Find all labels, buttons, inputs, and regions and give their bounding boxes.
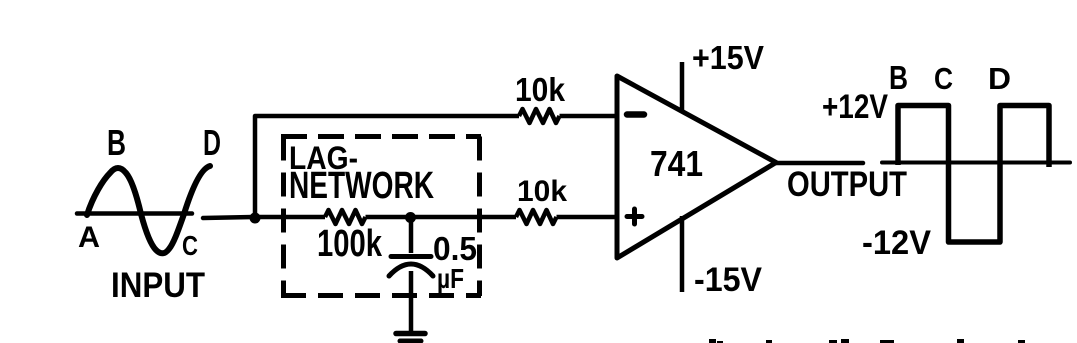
svg-text:C: C bbox=[934, 61, 953, 96]
negative supply wire bbox=[680, 216, 685, 292]
wire capacitor to ground bbox=[409, 271, 414, 333]
svg-text:µF: µF bbox=[437, 263, 464, 294]
svg-text:+12V: +12V bbox=[822, 88, 888, 126]
node junction dot bbox=[250, 213, 261, 224]
ground bbox=[396, 334, 425, 342]
op-amp inverting pin minus sign bbox=[627, 111, 644, 118]
output square waveform bbox=[898, 106, 1049, 243]
svg-text:-15V: -15V bbox=[694, 261, 762, 299]
dashed box right edge bbox=[477, 137, 482, 297]
output wire bbox=[776, 161, 863, 166]
resistor R2 10k (bottom) bbox=[516, 210, 557, 224]
svg-text:741: 741 bbox=[650, 143, 703, 184]
wire R2 to op-amp non-inverting input bbox=[557, 215, 617, 220]
dashed box bottom edge bbox=[281, 293, 481, 298]
output waveform axis bbox=[882, 161, 1070, 165]
svg-text:B: B bbox=[889, 59, 908, 96]
svg-text:10k: 10k bbox=[515, 71, 566, 108]
node capacitor junction dot bbox=[405, 212, 416, 223]
resistor R3 100k bbox=[325, 210, 366, 224]
wire input to node bbox=[203, 217, 253, 218]
svg-text:A: A bbox=[78, 221, 100, 254]
svg-text:INPUT: INPUT bbox=[111, 266, 205, 305]
wire node up branch bbox=[255, 116, 519, 217]
svg-text:10k: 10k bbox=[517, 175, 567, 208]
svg-text:-12V: -12V bbox=[862, 224, 931, 262]
svg-text:C: C bbox=[182, 230, 198, 261]
wire node down to capacitor bbox=[409, 218, 414, 253]
svg-text:+15V: +15V bbox=[692, 39, 764, 76]
cut-off caption text fragments at bottom edge bbox=[709, 339, 1025, 343]
wire R1 to op-amp inverting input bbox=[560, 114, 617, 119]
op-amp non-inverting pin plus sign bbox=[627, 209, 642, 224]
wire node to lag network bbox=[255, 215, 325, 220]
svg-text:0.5: 0.5 bbox=[433, 230, 477, 267]
resistor R1 10k (top) bbox=[519, 109, 560, 123]
svg-text:100k: 100k bbox=[317, 223, 383, 265]
positive supply wire bbox=[680, 62, 685, 113]
capacitor C1 top plate bbox=[391, 254, 431, 259]
svg-text:NETWORK: NETWORK bbox=[289, 165, 434, 207]
svg-text:B: B bbox=[107, 122, 126, 163]
input waveform axis bbox=[77, 211, 192, 216]
capacitor C1 curved plate bbox=[389, 264, 433, 276]
input sine waveform bbox=[87, 166, 210, 253]
svg-text:D: D bbox=[988, 61, 1011, 96]
dashed box left edge bbox=[281, 137, 286, 297]
svg-text:D: D bbox=[203, 122, 221, 163]
op-amp U1 triangle bbox=[617, 76, 776, 258]
svg-text:OUTPUT: OUTPUT bbox=[787, 165, 907, 204]
dashed box LAG-NETWORK top edge bbox=[281, 134, 481, 139]
wire R3 to C node and through box bbox=[366, 215, 517, 220]
